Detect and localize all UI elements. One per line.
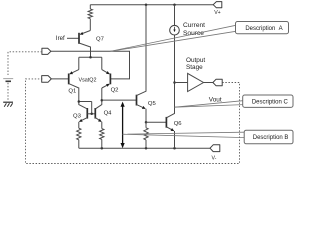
svg-text:Q5: Q5 bbox=[148, 101, 157, 107]
svg-text:Q3: Q3 bbox=[73, 113, 82, 119]
svg-text:Current: Current bbox=[183, 22, 205, 29]
svg-text:Iref: Iref bbox=[56, 35, 65, 42]
svg-text:V+: V+ bbox=[214, 10, 221, 16]
svg-text:V-: V- bbox=[212, 156, 217, 162]
svg-text:VsatQ2: VsatQ2 bbox=[79, 78, 97, 84]
svg-text:Q1: Q1 bbox=[68, 89, 76, 95]
svg-text:Description B: Description B bbox=[253, 135, 289, 141]
svg-text:Description C: Description C bbox=[252, 99, 289, 105]
svg-text:Vout: Vout bbox=[209, 96, 222, 103]
svg-text:Stage: Stage bbox=[186, 64, 203, 71]
svg-text:Description A: Description A bbox=[245, 26, 282, 32]
svg-text:Q2: Q2 bbox=[111, 87, 119, 93]
svg-text:Q6: Q6 bbox=[174, 121, 183, 127]
svg-text:Q7: Q7 bbox=[96, 37, 104, 43]
svg-text:Q4: Q4 bbox=[104, 110, 113, 116]
